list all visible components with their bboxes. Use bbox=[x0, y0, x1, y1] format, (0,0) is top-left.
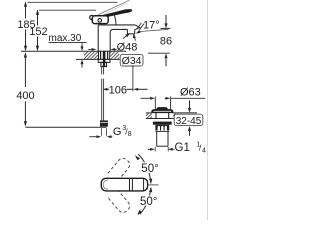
faucet lever base collar bbox=[92, 16, 108, 24]
faucet mounting shank bbox=[99, 51, 110, 59]
hose end fitting G3/8 bbox=[100, 120, 108, 126]
faucet lever blade bbox=[103, 9, 132, 17]
dimension 400 vertical line bbox=[24, 52, 27, 127]
rotation arc lower bbox=[140, 188, 151, 214]
handle front view solid bbox=[101, 178, 147, 191]
drain neck between counter bbox=[156, 112, 169, 118]
counter top extension (86 bottom ref) bbox=[148, 52, 170, 54]
dimension 152 vertical line bbox=[36, 9, 39, 51]
svg-text:8: 8 bbox=[128, 131, 132, 138]
drain counter hatch right bbox=[173, 113, 176, 118]
faucet raised-lever faint outline bbox=[98, 0, 129, 15]
svg-text:152: 152 bbox=[29, 26, 47, 38]
extension line top of lever (185 ref) bbox=[28, 1, 118, 3]
boxed label O34 bbox=[120, 54, 143, 66]
dimension O63 bbox=[141, 97, 206, 111]
label 50 deg top bbox=[141, 162, 162, 173]
svg-text:G: G bbox=[113, 126, 122, 138]
G3/8 width arrows bbox=[89, 135, 112, 138]
spout tip beak bbox=[135, 25, 140, 30]
svg-text:17°: 17° bbox=[143, 20, 160, 32]
threaded stud bbox=[101, 62, 107, 66]
leader from O34 box down bbox=[132, 65, 134, 91]
hose crossing gap bbox=[101, 74, 105, 78]
dimension 86 bbox=[161, 15, 171, 66]
hose end reference line (bottom of 400) bbox=[25, 126, 106, 128]
handle rotation: dashed lever up position bbox=[108, 156, 132, 181]
counter hatch left of faucet bbox=[84, 52, 98, 59]
svg-text:86: 86 bbox=[160, 35, 172, 47]
drain tailpipe bbox=[157, 131, 168, 146]
svg-text:Ø63: Ø63 bbox=[180, 86, 201, 98]
angle wedge marks for 17deg bbox=[136, 23, 141, 30]
aerator bbox=[127, 29, 134, 34]
17deg leader line bbox=[140, 29, 169, 31]
svg-text:106: 106 bbox=[109, 84, 127, 96]
svg-text:G1: G1 bbox=[175, 142, 190, 154]
mounting nut bbox=[98, 59, 110, 62]
svg-text:Ø34: Ø34 bbox=[122, 55, 142, 67]
extension line 152 ref bbox=[39, 9, 96, 11]
drain cap button bbox=[157, 107, 168, 110]
flexible hose bbox=[101, 67, 103, 121]
counter bottom line (faucet section) bbox=[76, 58, 98, 60]
faucet lever neck bbox=[114, 14, 116, 25]
tailpipe extension ticks bbox=[154, 147, 156, 152]
label O48 with leaders bbox=[88, 33, 136, 51]
counter bottom line (drain section) bbox=[146, 118, 174, 120]
svg-text:400: 400 bbox=[16, 90, 34, 102]
handle rotation: dashed lever down position bbox=[108, 189, 132, 214]
svg-text:50°: 50° bbox=[141, 163, 158, 175]
faucet body right edge with fillet to spout underside bbox=[110, 29, 127, 51]
lever front tip nub bbox=[90, 16, 94, 20]
counter hatch right of faucet bbox=[110, 52, 119, 59]
drain cap bbox=[152, 110, 173, 113]
counter top line (faucet section) bbox=[21, 50, 98, 52]
dimension 106 bbox=[103, 88, 148, 91]
handle axis centerline bbox=[148, 184, 159, 186]
rotation arc upper bbox=[138, 154, 151, 183]
svg-text:4: 4 bbox=[202, 147, 206, 154]
G1 1/4 width arrows bbox=[148, 148, 175, 151]
fitting extension ticks bbox=[100, 128, 102, 136]
drain body flange bbox=[153, 122, 172, 125]
svg-text:32-45: 32-45 bbox=[176, 116, 202, 127]
faucet body bbox=[98, 25, 135, 51]
label 50 deg bottom bbox=[140, 196, 161, 206]
boxed label 32-45 bbox=[174, 114, 203, 125]
dimension 32-45 arrows bbox=[188, 100, 191, 135]
drain counter hatch left bbox=[146, 113, 152, 118]
counter top line (drain section) bbox=[146, 112, 152, 114]
dimension 185 vertical line bbox=[24, 1, 27, 51]
lever underside dot bbox=[98, 19, 102, 23]
svg-text:50°: 50° bbox=[140, 196, 157, 208]
drain slotted nut bbox=[155, 125, 169, 132]
faint page divider line bbox=[207, 0, 209, 220]
